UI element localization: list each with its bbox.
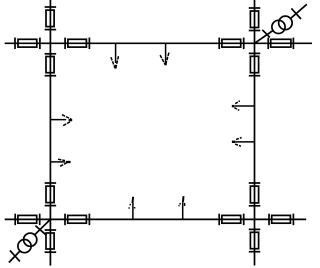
fuse F7 (left bus, above node D) <box>45 183 57 206</box>
wire T2 source lead <box>9 251 20 263</box>
transformer T2 secondary winding <box>18 240 31 253</box>
wire transformer T2 feeder segment (node D to T2) <box>35 219 51 234</box>
transformer T1 primary winding <box>272 20 285 33</box>
transformer T1 secondary winding <box>279 16 293 30</box>
source mark X on T2 lead <box>10 250 20 261</box>
load arrow L4 (right from left bus) <box>50 159 70 166</box>
wire right bus (node B to node C) <box>254 0 256 266</box>
load arrow L3 (right from left bus) <box>50 115 72 127</box>
tick disconnect mark on T1 feeder <box>262 30 270 38</box>
fuse F6 (left bus, below node A) <box>45 54 57 76</box>
transformer T2 primary winding <box>24 233 37 246</box>
fuse F11 (right bus, above node C) <box>249 183 261 206</box>
fuse F16 (bottom bus, right of node C) <box>269 214 293 226</box>
fuse F10 (right bus, below node B) <box>249 53 261 75</box>
wire left bus (node A to node D) <box>49 0 51 266</box>
fuse F4 (top bus, right of node B) <box>268 38 293 50</box>
load arrow L8 (up from bottom bus) <box>179 196 185 219</box>
wire top bus (node A to node B) <box>5 42 312 44</box>
fuse F8 (left bus, below node D) <box>45 230 57 252</box>
wire bottom bus (node D to node C) <box>5 218 307 220</box>
load arrow L6 (left from right bus) <box>232 138 255 147</box>
load arrow L1 (down from top bus) <box>111 43 119 68</box>
fuse F5 (left bus, above node A) <box>45 7 57 30</box>
load arrow L5 (left from right bus) <box>232 101 255 111</box>
wire T1 source lead <box>291 4 307 18</box>
tick disconnect mark on T2 feeder <box>35 226 46 235</box>
fuse F9 (right bus, above node B) <box>249 8 261 31</box>
fuse F3 (top bus, left of node B) <box>219 38 244 50</box>
fuse F2 (top bus, right of node A) <box>65 38 89 50</box>
source mark X on T1 lead <box>291 8 301 19</box>
fuse F13 (bottom bus, left of node D) <box>15 214 40 226</box>
load arrow L2 (down from top bus) <box>160 43 169 65</box>
load arrow L7 (up from bottom bus) <box>129 197 135 220</box>
wire transformer T1 feeder segment (node B to T1) <box>255 31 274 44</box>
fuse F12 (right bus, below node C) <box>249 229 261 251</box>
fuse F15 (bottom bus, left of node C) <box>219 214 244 226</box>
fuse F14 (bottom bus, right of node D) <box>65 214 89 226</box>
fuse F1 (top bus, left of node A) <box>15 38 40 50</box>
